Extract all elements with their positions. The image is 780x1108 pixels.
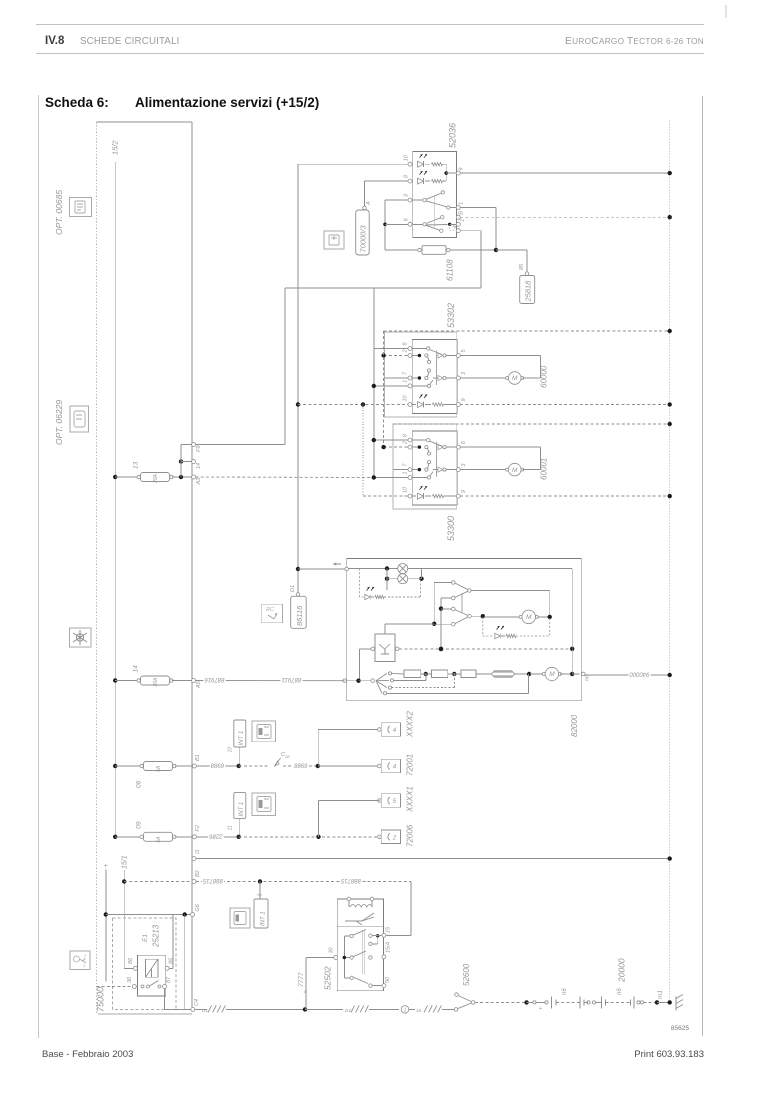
svg-text:M: M xyxy=(512,375,518,382)
svg-text:Scheda 6:: Scheda 6: xyxy=(45,95,109,110)
svg-text:A: A xyxy=(366,201,372,206)
svg-text:I1: I1 xyxy=(195,849,201,854)
svg-text:09: 09 xyxy=(136,821,143,829)
svg-text:A3: A3 xyxy=(196,477,202,486)
svg-text:B2: B2 xyxy=(195,870,201,877)
svg-text:52036: 52036 xyxy=(448,123,458,148)
svg-text:86116: 86116 xyxy=(295,605,304,626)
svg-text:Base - Febbraio 2003: Base - Febbraio 2003 xyxy=(42,1049,133,1060)
svg-text:13: 13 xyxy=(133,461,140,469)
svg-text:INT 1: INT 1 xyxy=(239,731,245,746)
svg-text:XXXX1: XXXX1 xyxy=(406,786,415,813)
svg-text:20A: 20A xyxy=(153,473,159,484)
svg-text:M: M xyxy=(549,671,555,678)
svg-text:85: 85 xyxy=(519,263,525,270)
svg-text:15/2: 15/2 xyxy=(111,140,120,155)
svg-text:G6: G6 xyxy=(195,903,201,911)
svg-text:87: 87 xyxy=(166,976,172,983)
svg-text:14: 14 xyxy=(133,665,140,673)
svg-text:85625: 85625 xyxy=(671,1025,689,1032)
svg-text:52502: 52502 xyxy=(323,966,333,990)
svg-text:1: 1 xyxy=(459,202,465,205)
svg-text:10: 10 xyxy=(404,154,410,161)
svg-text:XXXX2: XXXX2 xyxy=(406,711,415,738)
svg-text:4: 4 xyxy=(453,225,459,228)
svg-text:1: 1 xyxy=(404,1008,407,1014)
svg-text:10: 10 xyxy=(403,486,409,493)
svg-text:D1: D1 xyxy=(290,585,296,592)
svg-text:887916: 887916 xyxy=(204,676,225,682)
svg-text:F9: F9 xyxy=(196,446,202,452)
svg-text:+: + xyxy=(539,1006,542,1012)
svg-text:14: 14 xyxy=(196,463,202,469)
svg-text:20000: 20000 xyxy=(617,958,627,983)
svg-text:EUROCARGO TECTOR 6-26 TON: EUROCARGO TECTOR 6-26 TON xyxy=(565,36,704,47)
svg-text:30: 30 xyxy=(127,976,133,983)
svg-text:85: 85 xyxy=(169,957,175,964)
svg-text:C4: C4 xyxy=(194,999,200,1006)
svg-text:30: 30 xyxy=(329,946,335,953)
svg-text:52600: 52600 xyxy=(462,963,471,986)
svg-text:75000: 75000 xyxy=(96,987,106,1012)
svg-text:D4: D4 xyxy=(345,1008,351,1013)
svg-text:16: 16 xyxy=(416,1008,422,1013)
svg-text:6988: 6988 xyxy=(210,762,224,768)
svg-text:60001: 60001 xyxy=(540,458,549,480)
svg-text:887911: 887911 xyxy=(282,676,302,682)
svg-text:A5: A5 xyxy=(196,680,202,689)
svg-text:IV.8: IV.8 xyxy=(45,35,65,47)
svg-text:1: 1 xyxy=(403,380,409,383)
svg-text:RC: RC xyxy=(266,607,274,613)
svg-text:Print 603.93.183: Print 603.93.183 xyxy=(634,1049,704,1060)
svg-text:61108: 61108 xyxy=(446,259,455,281)
svg-text:+: + xyxy=(104,863,108,870)
svg-text:M: M xyxy=(526,614,532,621)
svg-text:70000/3: 70000/3 xyxy=(359,225,368,253)
svg-text:6988: 6988 xyxy=(294,762,308,768)
svg-text:9: 9 xyxy=(461,490,467,493)
svg-text:2: 2 xyxy=(392,835,397,841)
svg-text:SCHEDE CIRCUITALI: SCHEDE CIRCUITALI xyxy=(80,36,180,47)
svg-text:2: 2 xyxy=(460,219,466,223)
svg-text:15: 15 xyxy=(386,926,392,933)
svg-text:20A: 20A xyxy=(153,677,159,688)
svg-text:B: B xyxy=(459,211,465,215)
svg-text:2K: 2K xyxy=(284,754,290,759)
svg-text:9: 9 xyxy=(459,168,465,171)
svg-text:940000: 940000 xyxy=(629,671,650,677)
svg-text:06: 06 xyxy=(136,780,143,788)
svg-text:10: 10 xyxy=(403,394,409,401)
svg-text:B1: B1 xyxy=(195,754,201,761)
svg-text:INT 1: INT 1 xyxy=(261,911,267,926)
svg-text:60000: 60000 xyxy=(540,365,549,388)
svg-text:M: M xyxy=(512,467,518,474)
svg-text:2286: 2286 xyxy=(209,833,224,839)
svg-text:53302: 53302 xyxy=(446,303,456,328)
svg-text:n6: n6 xyxy=(562,988,568,995)
svg-text:86: 86 xyxy=(128,957,134,964)
svg-text:D1: D1 xyxy=(202,1008,208,1013)
svg-text:2: 2 xyxy=(403,441,409,445)
svg-text:E1: E1 xyxy=(142,934,149,942)
svg-text:50: 50 xyxy=(385,976,391,983)
svg-text:Alimentazione servizi (+15/2): Alimentazione servizi (+15/2) xyxy=(135,95,319,110)
svg-text:1: 1 xyxy=(84,953,86,958)
svg-text:72001: 72001 xyxy=(406,754,415,776)
svg-text:72006: 72006 xyxy=(406,824,415,847)
svg-text:25818: 25818 xyxy=(524,280,533,303)
svg-text:11: 11 xyxy=(228,825,234,830)
svg-text:3: 3 xyxy=(258,894,264,897)
svg-text:53300: 53300 xyxy=(446,516,456,541)
svg-text:1: 1 xyxy=(403,471,409,474)
svg-text:9: 9 xyxy=(461,398,467,401)
svg-text:OPT. 06229: OPT. 06229 xyxy=(54,400,64,445)
svg-text:n6: n6 xyxy=(617,988,623,995)
svg-text:82000: 82000 xyxy=(570,714,579,737)
svg-text:7777: 7777 xyxy=(298,972,305,987)
svg-text:5A: 5A xyxy=(156,765,162,772)
svg-text:5A: 5A xyxy=(156,836,162,843)
svg-text:OPT. 00685: OPT. 00685 xyxy=(54,190,64,235)
svg-text:15/A: 15/A xyxy=(386,941,392,953)
svg-text:888715: 888715 xyxy=(202,877,223,883)
svg-text:25213: 25213 xyxy=(152,924,161,948)
svg-text:2: 2 xyxy=(403,349,409,353)
svg-text:888715: 888715 xyxy=(340,877,361,883)
svg-text:15/1: 15/1 xyxy=(122,855,129,869)
svg-text:F2: F2 xyxy=(195,825,201,831)
svg-text:10: 10 xyxy=(228,747,234,753)
svg-text:INT 1: INT 1 xyxy=(239,802,245,817)
svg-text:m1: m1 xyxy=(657,990,664,999)
